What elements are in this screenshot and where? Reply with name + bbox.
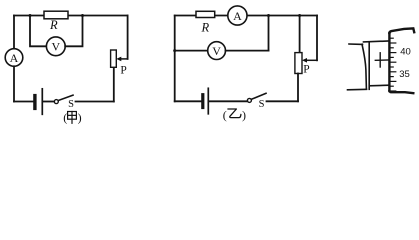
wire: 乙 voltmeter branch right riser [268,16,270,51]
svg-text:40: 40 [400,47,411,58]
battery (乙) [203,88,209,114]
svg-text:A: A [233,9,242,23]
svg-text:S: S [259,99,265,110]
micrometer barrel top line [349,43,363,45]
label (乙) [223,108,246,122]
wire: 甲 bottom wire left segment [14,101,33,103]
svg-text:V: V [51,40,60,54]
wire: 乙 right edge from top wire down to wiper [316,16,318,61]
ammeter A (乙) [228,6,247,25]
wire: 乙 voltmeter branch right segment [226,50,269,52]
wiper arrow of rheostat (甲) [116,57,127,62]
wire: left edge of 乙 [174,16,176,102]
wire: 甲 bottom wire right of switch [76,101,114,103]
node: 乙 rheostat top junction on top wire [298,14,301,17]
wire: 乙 rheostat bottom lead down to bottom wire [297,74,299,102]
node: 甲 right junction of voltmeter branch [81,14,84,17]
svg-text:P: P [303,63,309,75]
wire: 甲 voltmeter branch right riser [65,16,82,47]
node: 甲 left junction of voltmeter branch [29,14,32,17]
micrometer barrel end cap line [362,44,366,89]
svg-text:R: R [200,21,209,35]
wire: 甲 riser from bottom wire to rheostat [113,67,115,101]
rheostat P (甲) [111,50,127,77]
svg-text:R: R [49,18,58,32]
resistor R (甲) [44,11,68,32]
voltmeter V (乙) [208,42,226,60]
svg-text:P: P [120,65,126,77]
wire: top wire of circuit 甲 [14,15,128,17]
node: 乙 voltmeter branch junction on top wire [267,14,270,17]
micrometer sleeve bottom edge [369,84,388,87]
wire: 乙 bottom wire between battery and switch [209,100,247,102]
micrometer thimble scale ticks [390,38,395,91]
wire: left vertical wire of 甲 (top corner down to ammeter) [13,16,15,49]
svg-text:A: A [10,51,19,65]
svg-text:35: 35 [399,69,410,80]
svg-text:(: ( [223,108,227,122]
micrometer sleeve left edge [368,42,370,90]
svg-text:(: ( [63,111,67,125]
resistor R (乙) [196,11,215,34]
node: 乙 voltmeter branch junction on left edge [173,49,176,52]
wire: top wire of circuit 乙 [175,15,317,17]
rheostat P (乙) [295,53,310,76]
wire: 甲 left wire below ammeter [13,66,15,101]
micrometer barrel bottom line [348,88,367,91]
wire: 乙 voltmeter branch left segment [175,50,208,52]
battery (甲) [35,89,42,115]
wire: 乙 drop from top wire to rheostat top [299,16,301,53]
label (甲) [63,111,81,125]
wire: 乙 bottom wire left segment [175,100,202,102]
wire: 甲 voltmeter branch left drop [30,16,46,47]
svg-text:S: S [68,99,74,110]
micrometer sleeve top edge [364,40,389,43]
wire: 甲 right edge from top wire down to wiper [127,16,129,59]
micrometer main scale division mark [379,53,381,67]
voltmeter V (甲) [46,37,65,56]
wiper arrow of rheostat (乙) [302,58,317,63]
switch S (乙) [247,93,266,110]
micrometer thimble top edge [389,28,414,33]
wire: 乙 bottom wire right of switch [267,100,299,102]
ammeter A (甲) [5,49,23,67]
micrometer thimble left edge (scale edge) [388,33,390,91]
svg-text:V: V [212,44,221,58]
wire: 甲 bottom wire between battery and switch [43,101,54,103]
svg-text:): ) [78,111,82,125]
svg-text:): ) [242,108,246,122]
micrometer sleeve datum line [375,59,389,61]
micrometer thimble bottom edge [389,91,413,93]
switch S (甲) [54,95,74,110]
